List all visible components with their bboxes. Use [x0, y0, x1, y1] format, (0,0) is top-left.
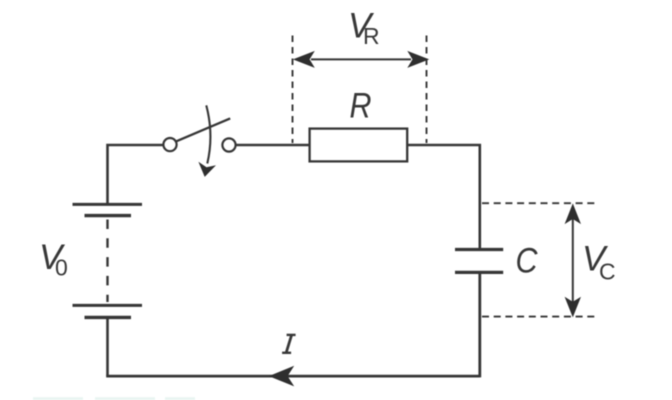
current I arrow head: [269, 366, 294, 387]
VR arrow shaft: [311, 58, 411, 60]
battery V0 cell 1 short plate: [85, 214, 132, 217]
svg-text:C: C: [599, 259, 616, 285]
label I: [282, 335, 296, 353]
VC arrow head top: [565, 203, 581, 224]
wire right vertical upper + top-right horizontal: [407, 145, 480, 249]
switch contact circle left: [163, 138, 176, 151]
battery dashed link: [106, 220, 108, 303]
VR arrow head right: [407, 51, 429, 68]
capacitor C top plate: [455, 248, 503, 251]
dashed guide right of VR: [426, 36, 428, 144]
svg-text:R: R: [350, 86, 372, 125]
svg-text:R: R: [363, 23, 380, 49]
dashed guide bottom of VC: [482, 316, 598, 318]
VR arrow head left: [293, 51, 315, 68]
wire left vertical lower: [106, 318, 109, 377]
svg-text:0: 0: [55, 255, 68, 281]
switch closing arrow head: [198, 162, 216, 177]
capacitor C bottom plate: [455, 271, 503, 274]
battery V0 cell 2 short plate: [85, 316, 132, 319]
switch contact circle right: [222, 138, 235, 151]
battery V0 cell 2 long plate: [73, 304, 143, 307]
VC arrow shaft: [572, 211, 574, 310]
switch blade: [176, 118, 230, 141]
VC arrow head bottom: [565, 297, 581, 318]
svg-text:C: C: [516, 241, 538, 280]
wire resistor to switch: [236, 144, 309, 147]
wire bottom horizontal: [106, 375, 480, 378]
wire top-left horizontal: [108, 145, 163, 204]
resistor R body: [310, 129, 408, 162]
dashed guide left of VR: [292, 36, 294, 144]
switch closing arrow arc: [206, 105, 210, 163]
battery V0 cell 1 long plate: [73, 203, 143, 206]
wire right vertical lower: [478, 273, 481, 378]
cropped caption remnant: [33, 397, 195, 400]
dashed guide top of VC: [482, 202, 598, 204]
